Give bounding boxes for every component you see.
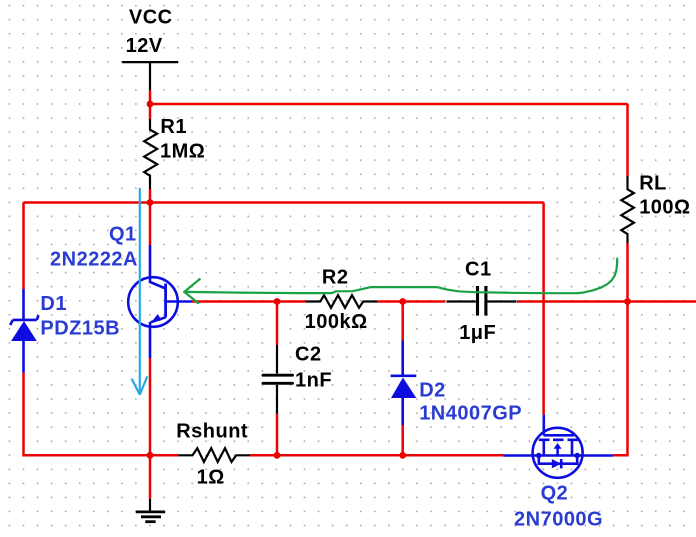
svg-text:12V: 12V xyxy=(126,35,163,57)
svg-text:100kΩ: 100kΩ xyxy=(305,311,368,333)
svg-text:C1: C1 xyxy=(465,259,492,281)
svg-text:R2: R2 xyxy=(322,267,349,289)
svg-text:D1: D1 xyxy=(40,293,67,315)
svg-text:Q1: Q1 xyxy=(109,223,137,245)
svg-text:Rshunt: Rshunt xyxy=(176,421,248,443)
svg-text:1N4007GP: 1N4007GP xyxy=(419,402,522,424)
svg-text:1Ω: 1Ω xyxy=(197,466,225,488)
svg-text:VCC: VCC xyxy=(129,6,173,28)
svg-text:1μF: 1μF xyxy=(459,322,496,344)
svg-text:PDZ15B: PDZ15B xyxy=(40,317,120,339)
svg-text:R1: R1 xyxy=(160,116,187,138)
svg-text:1MΩ: 1MΩ xyxy=(160,141,205,163)
svg-text:Q2: Q2 xyxy=(541,483,569,505)
svg-text:D2: D2 xyxy=(419,379,446,401)
svg-text:1nF: 1nF xyxy=(295,369,332,391)
svg-text:2N7000G: 2N7000G xyxy=(514,508,603,530)
svg-text:C2: C2 xyxy=(295,344,322,366)
svg-text:2N2222A: 2N2222A xyxy=(50,248,138,270)
svg-text:RL: RL xyxy=(639,173,667,195)
svg-text:100Ω: 100Ω xyxy=(639,196,690,218)
